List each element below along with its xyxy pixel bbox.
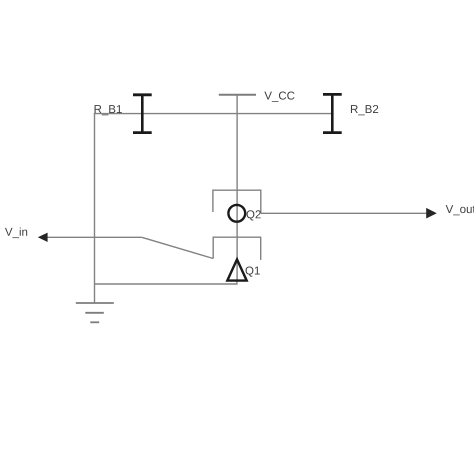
wire bottom emitter rail from left vertical to Q1 base stub <box>95 280 237 284</box>
wire diagonal from V_in rail to Q1 bracket <box>142 237 213 258</box>
wire V_in rail <box>46 236 142 238</box>
label V_CC <box>264 91 294 101</box>
transistor Q1 gate bracket <box>213 237 261 260</box>
arrowhead V_in <box>38 233 48 242</box>
label Q1 <box>246 266 260 276</box>
transistor Q1 body (NPN triangle) <box>227 259 246 280</box>
power V_CC bar <box>219 94 256 96</box>
wire output from Q2 bracket to V_out arrow <box>261 212 427 214</box>
arrowhead V_out <box>426 208 437 219</box>
wire left vertical from top rail down to ground <box>94 113 96 303</box>
label V_out <box>446 205 474 215</box>
label V_in <box>5 227 27 238</box>
wire V_CC vertical down through Q2 circle to Q1 triangle <box>236 95 238 280</box>
transistor Q2 body (PNP circle) <box>228 205 245 222</box>
transistor Q2 gate bracket <box>213 190 261 213</box>
resistor R_B1 <box>133 95 152 133</box>
label R_B1 <box>95 105 122 115</box>
wire top rail from left corner to R_B2 <box>94 113 332 115</box>
ground <box>76 303 114 322</box>
label R_B2 <box>351 105 378 115</box>
label Q2 <box>247 210 261 220</box>
resistor R_B2 <box>323 94 342 132</box>
